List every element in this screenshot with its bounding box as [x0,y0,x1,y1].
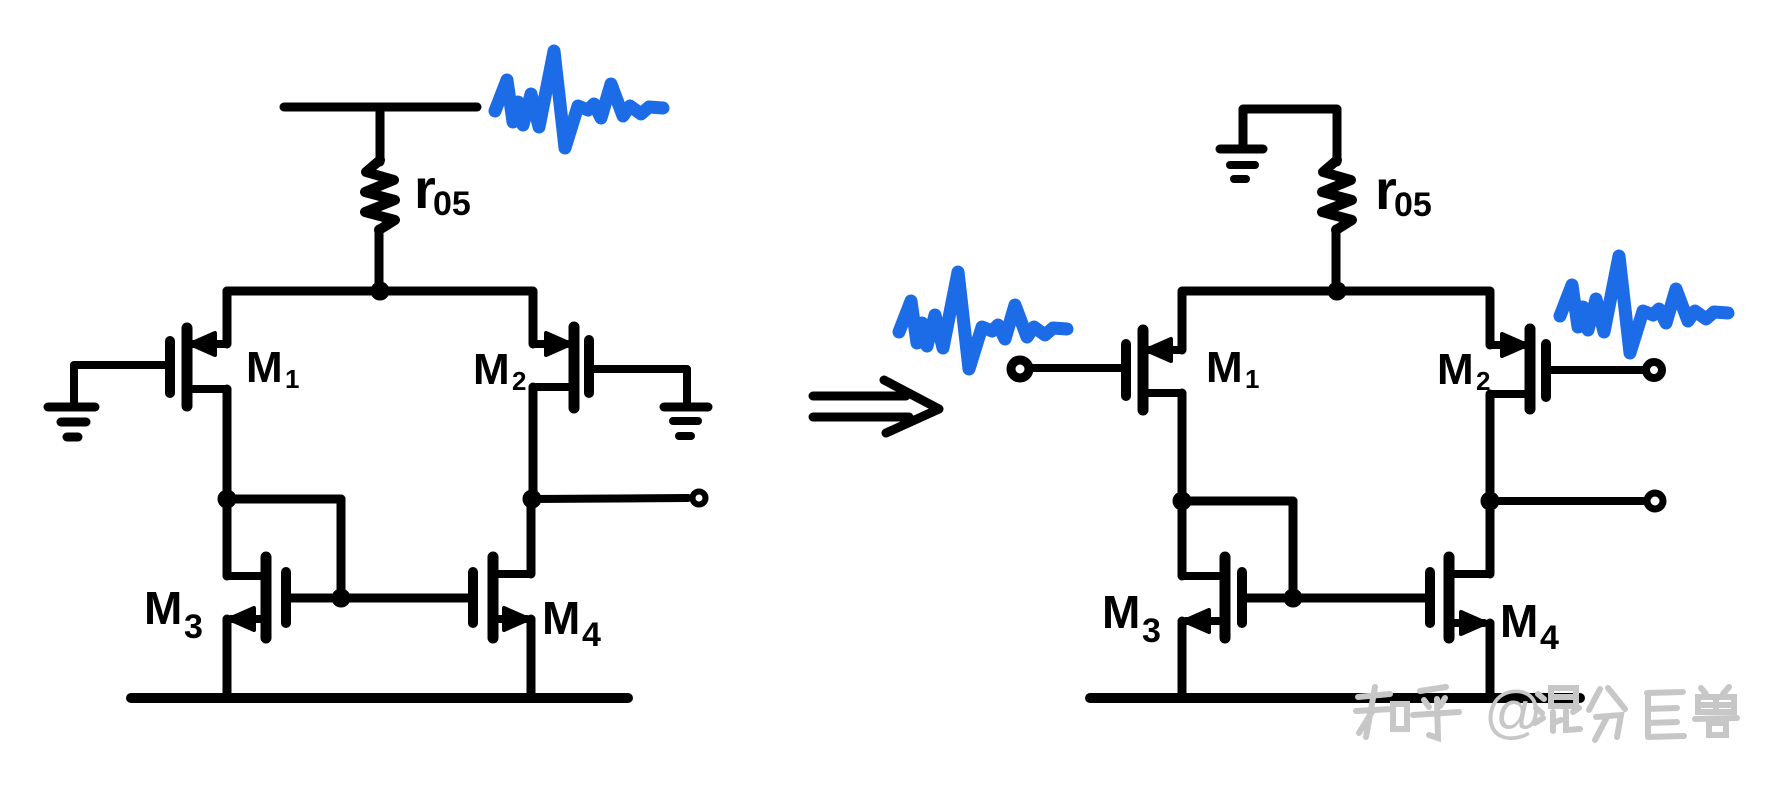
transistor M2 left: source line [533,340,570,348]
wire: M1 gate lead [74,365,170,403]
node: M1 drain node dot [218,490,236,508]
transistor M3 left: gate bar [281,572,291,623]
transistor M1 left: drain line [187,385,227,393]
wire: mirror gate row right circuit [1242,594,1430,603]
wire: diode connection horizontal right [1182,497,1293,506]
node: M2 right drain node dot [1481,492,1499,510]
wire: output lead left circuit [532,498,688,499]
wire: resistor to tail node right [1332,229,1341,291]
transistor M2 right: source line [1490,341,1526,349]
svg-text:05: 05 [433,185,471,223]
wire: M3 right source down to rail [1178,621,1187,698]
svg-text:1: 1 [1245,364,1259,394]
ground: left input ground dot [67,433,78,442]
transistor M1 right: gate bar [1121,344,1131,396]
svg-text:M: M [1500,595,1538,647]
transistor M4 left: source line [493,615,527,623]
transistor M2 left: drain line [533,383,574,391]
noise squiggle output right circuit [1560,256,1728,353]
terminal: input circle right circuit [1011,360,1029,378]
ground: top ground mid bar right circuit [1230,161,1255,169]
node: M1 right drain node dot [1173,492,1191,510]
wire: resistor to tail node [375,229,384,291]
wire: M4 drain up to node [527,499,536,574]
wire: diode connection vertical [337,499,346,598]
wire: M1 right source up to rail [1178,291,1187,350]
transistor M1 right: source arrow [1146,339,1171,361]
node: gate row junction dot [332,589,350,607]
wire: diode connection vertical right [1289,501,1298,598]
transistor M2 left: channel bar [569,327,580,408]
transistor M1 right: channel bar [1138,330,1149,410]
transistor M4 left: source arrow [504,608,529,630]
arrow: big implication double arrow [813,380,939,433]
svg-text:4: 4 [582,616,601,654]
ground: right ground dot left circuit [679,432,691,440]
svg-text:3: 3 [184,608,203,646]
wire: M2 drain down to node [529,387,538,499]
transistor M1 right: drain line [1143,389,1182,397]
wire: bottom rail left circuit [131,693,628,703]
svg-text:M: M [1437,345,1474,394]
transistor M4 left: gate bar [468,572,478,623]
transistor M4 left: drain line [493,570,531,578]
transistor M3 right: drain line [1182,572,1225,580]
svg-text:M: M [473,345,510,394]
node: tail node dot left [371,282,389,300]
wire: mirror gate row left circuit [286,594,473,603]
svg-text:05: 05 [1394,186,1432,224]
wire: top rail (VDD) left circuit [284,103,477,112]
transistor M2 right: drain line [1490,390,1530,398]
svg-text:M: M [246,343,283,392]
ground: right ground mid bar left circuit [673,417,698,425]
wire: M1 right drain down to node [1178,393,1187,501]
svg-text:1: 1 [285,364,299,394]
svg-text:3: 3 [1142,612,1161,650]
svg-text:M: M [1206,343,1243,392]
transistor M1 right: source line [1148,346,1182,354]
resistor r_o5 right zigzag [1322,160,1352,230]
resistor r_o5 left zigzag [365,160,395,230]
transistor M1 left: source line [192,340,227,348]
terminal: output circle right circuit [1647,493,1663,509]
terminal: M2 gate circle right circuit [1646,362,1662,378]
wire: M3 drain up to node [223,499,232,576]
wire: output lead right circuit [1490,497,1643,505]
ground: top ground dot right circuit [1234,175,1246,183]
transistor M2 right: channel bar [1525,329,1536,409]
terminal: output circle left circuit [693,492,706,505]
transistor M3 right: source line [1186,617,1225,625]
transistor M3 left: source line [231,615,266,623]
transistor M4 right: source line [1449,619,1484,627]
wire: M2 gate lead [589,369,687,403]
transistor M3 left: drain line [227,572,266,580]
watermark: zhihu gray text [1356,687,1737,740]
wire: M2 right source up to rail [1486,292,1495,345]
svg-text:M: M [144,582,182,634]
ground: left input ground mid bar [61,418,86,427]
wire: M2 right gate lead [1546,366,1644,374]
transistor M1 left: source arrow [190,333,215,355]
node: gate row junction dot right [1284,589,1302,607]
wire: M4 right drain up to node [1486,501,1495,574]
wire: bottom rail right circuit [1090,693,1580,703]
transistor M1 left: gate bar [165,341,175,393]
transistor M2 left: source arrow [546,333,571,355]
wire: M1 source up to rail [223,291,232,344]
wire: M2 right drain down to node [1486,394,1495,501]
wire: M3 source down to rail [223,619,232,698]
svg-text:M: M [542,592,580,644]
svg-text:2: 2 [1476,366,1490,396]
transistor M2 left: gate bar [584,340,594,393]
transistor M3 left: source arrow [229,608,254,630]
transistor M4 right: drain line [1449,570,1490,578]
svg-text:M: M [1102,586,1140,638]
wire: M3 right drain up to node [1178,501,1187,576]
wire: rail to resistor top [376,107,385,162]
transistor M1 left: channel bar [182,328,193,406]
ground: left input ground top bar [48,403,95,412]
wire: M2 source up to rail [529,291,538,344]
svg-text:4: 4 [1540,619,1559,657]
transistor M2 right: gate bar [1541,344,1551,397]
transistor M4 right: gate bar [1425,572,1435,623]
ground: top ground bar right circuit [1220,145,1263,154]
wire: top ground link right circuit [1243,109,1337,162]
node: M2 drain node dot [523,490,541,508]
wire: source rail node row left circuit [227,287,532,296]
wire: M4 right source down to rail [1486,623,1495,698]
transistor M4 right: source arrow [1461,612,1486,634]
wire: M1 drain down to node [223,389,232,499]
noise squiggle top left circuit [495,51,663,148]
ground: right ground top bar left circuit [664,403,708,412]
noise squiggle input right circuit [899,272,1067,369]
wire: diode connection horizontal [227,495,341,504]
svg-text:@: @ [1484,680,1543,745]
svg-text:2: 2 [512,366,526,396]
transistor M3 left: channel bar [261,557,272,638]
transistor M3 right: gate bar [1237,572,1247,623]
transistor M2 right: source arrow [1502,334,1527,356]
transistor M3 right: source arrow [1184,610,1209,632]
wire: source rail node row right circuit [1183,287,1490,296]
wire: M4 source down to rail [527,619,536,698]
transistor M3 right: channel bar [1220,557,1231,638]
transistor M4 right: channel bar [1444,557,1455,638]
node: tail node dot right [1328,282,1346,300]
wire: M1 right gate lead [1031,364,1126,372]
transistor M4 left: channel bar [488,557,499,638]
